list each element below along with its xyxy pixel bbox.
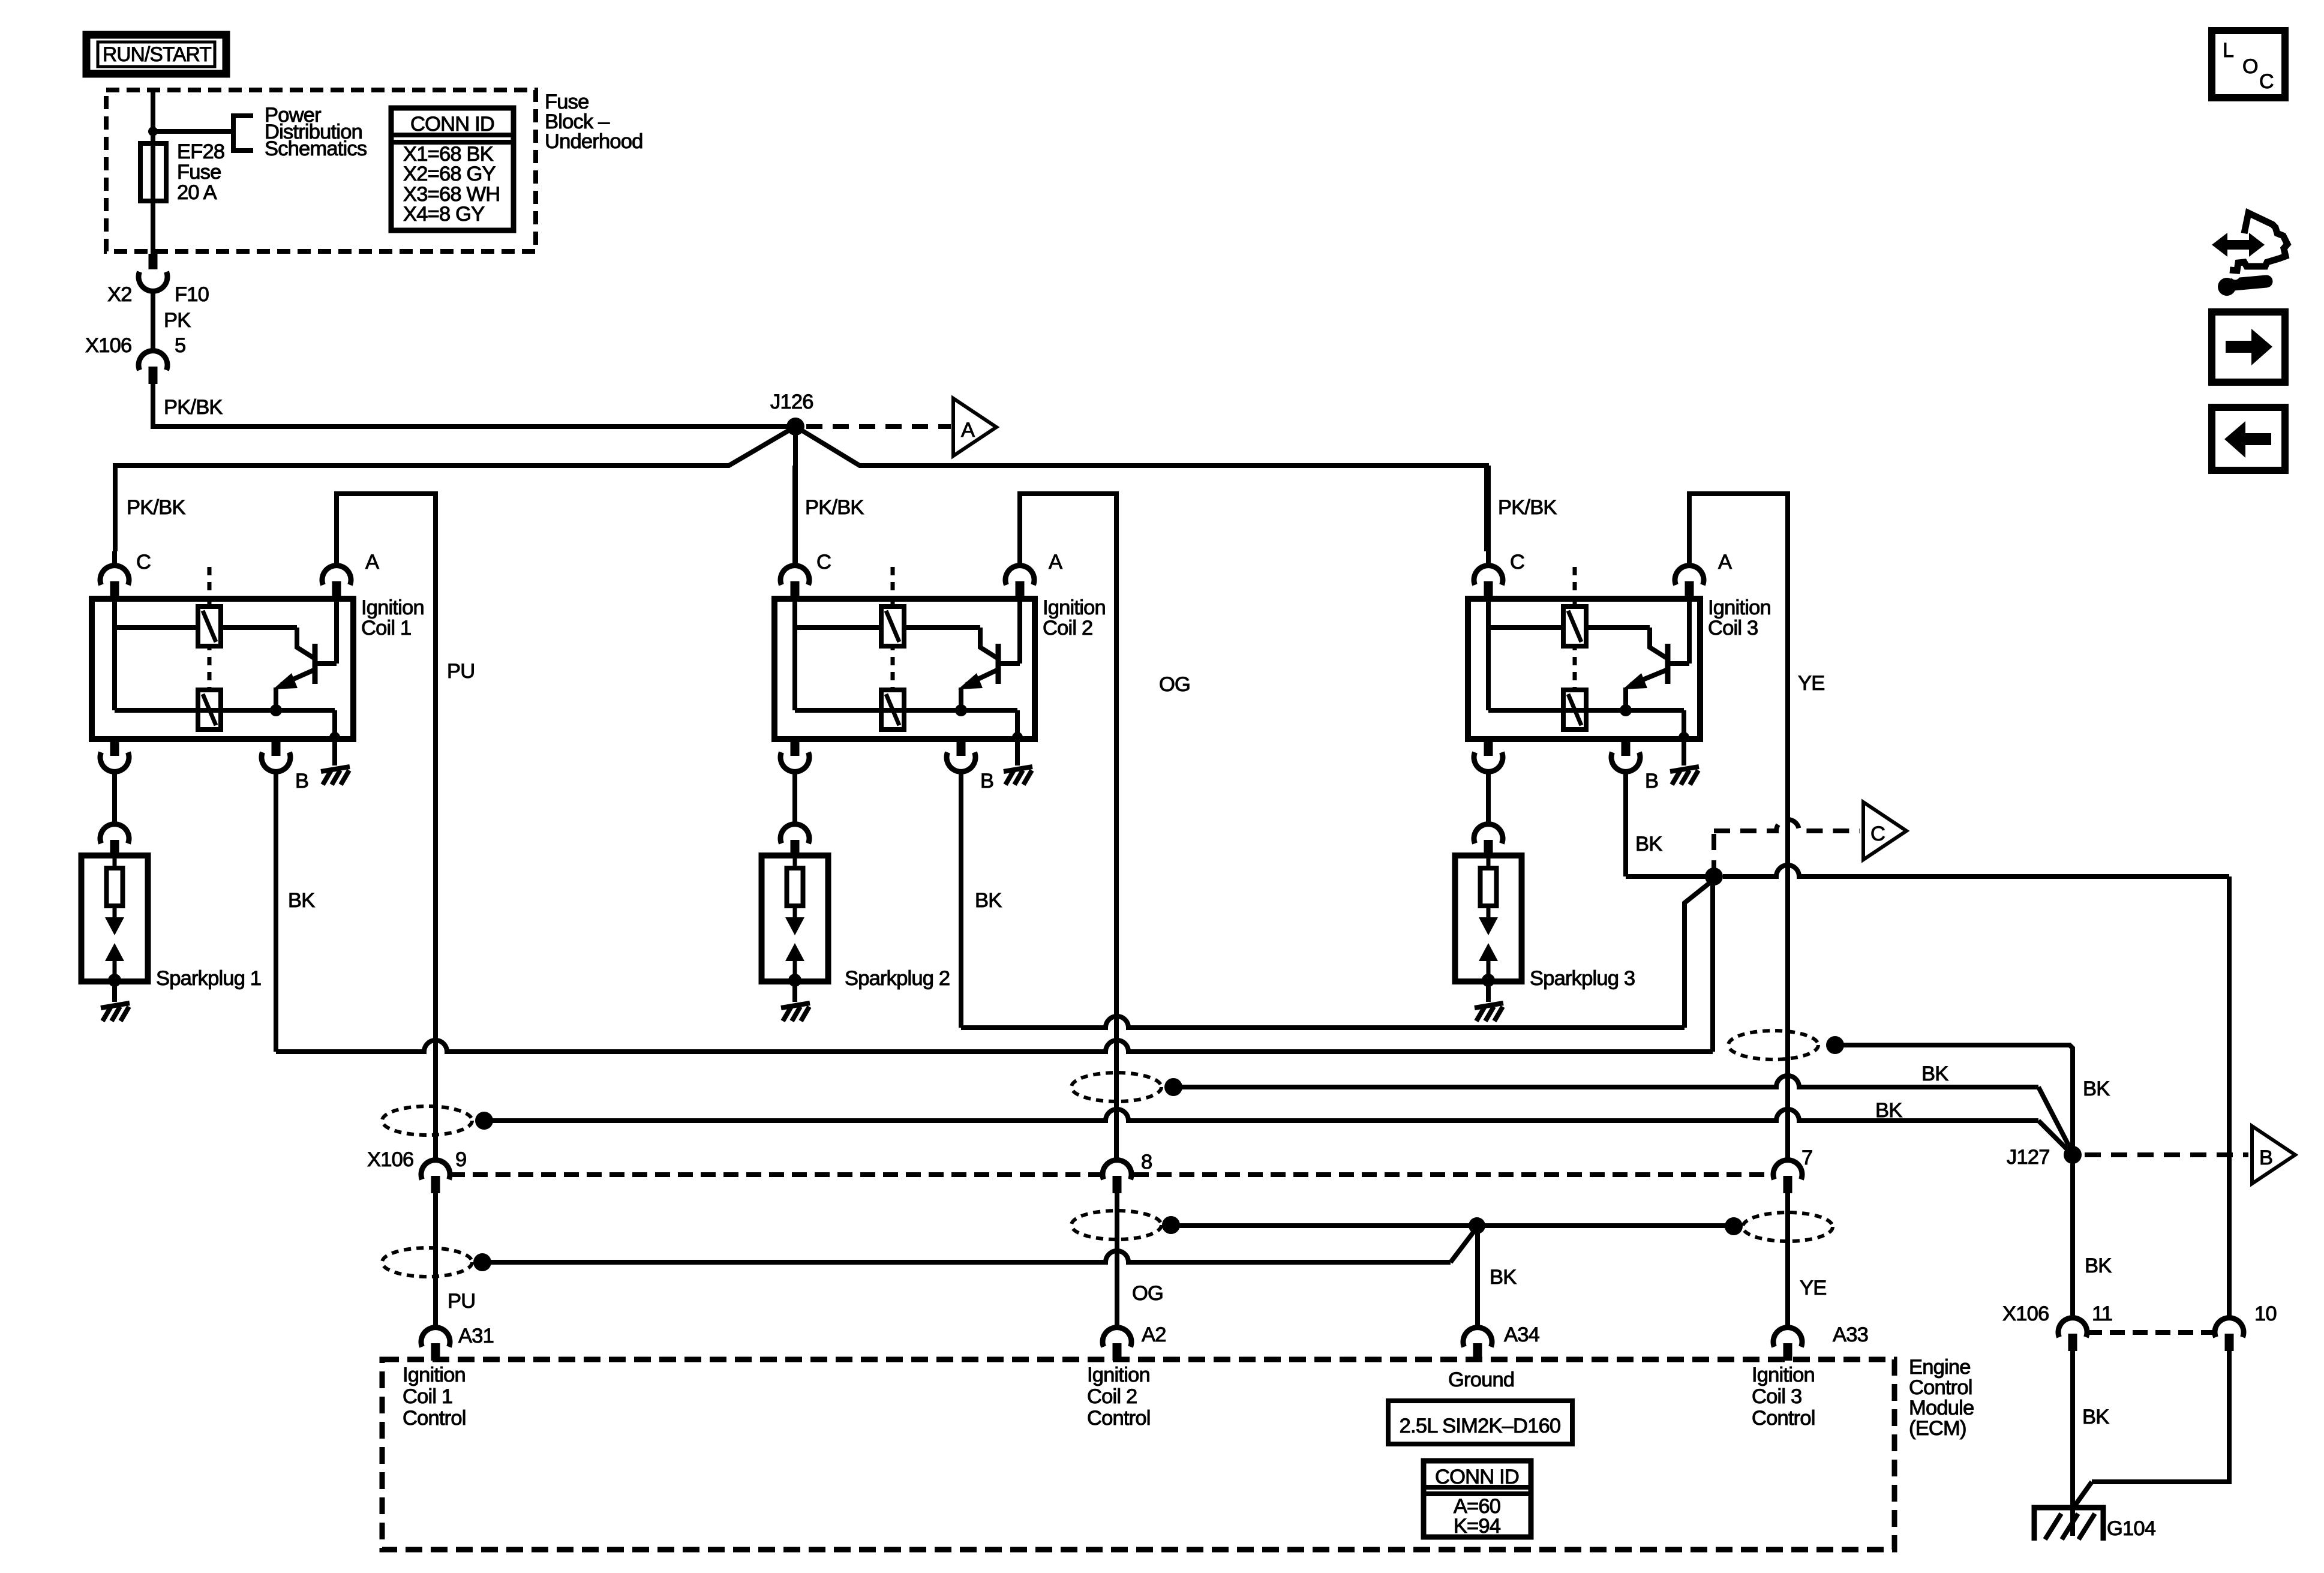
svg-text:PK/BK: PK/BK [1498,496,1557,519]
connector pin B of ignition coil 3 [1622,739,1631,756]
svg-text:Engine: Engine [1909,1356,1971,1379]
wire coil 2 secondary to sparkplug connector [792,772,797,824]
sparkplug 3 body [1455,855,1522,981]
wire BK ground bus to YE harness [1171,1223,1734,1228]
connector pin C of ignition coil 3 [1474,566,1503,585]
coil 2 secondary output connector [791,739,800,756]
dashed off-page link to arrow C [1712,834,1716,868]
svg-text:BK: BK [975,889,1002,912]
wire BK ground tap 4 to A34 branch [482,1251,1451,1262]
node BK ground tap 5 [1162,1216,1180,1234]
off-page arrow C [1863,802,1906,860]
node emitter junction coil 3 [1620,704,1632,716]
coil 1 secondary output connector [110,739,119,756]
svg-text:Control: Control [1752,1407,1815,1430]
wire J126 to left rail (coil 1 feed) [115,427,795,551]
sparkplug 3 gap electrodes [1487,906,1491,918]
svg-text:B: B [1645,770,1658,792]
svg-text:YE: YE [1800,1277,1826,1299]
svg-text:2.5L SIM2K–D160: 2.5L SIM2K–D160 [1400,1415,1561,1437]
connector ECM pin A34 [1463,1328,1492,1347]
svg-text:A: A [1049,551,1062,574]
coil 3 primary rail [1486,600,1491,710]
svg-text:Sparkplug 3: Sparkplug 3 [1530,967,1635,990]
harness marker around YE wire (upper) [1728,1031,1818,1059]
svg-text:Ignition: Ignition [403,1364,466,1386]
node BK drain tap 3 [1826,1036,1844,1054]
svg-text:A2: A2 [1142,1323,1166,1346]
svg-text:CONN ID: CONN ID [410,113,494,136]
svg-text:A34: A34 [1504,1323,1540,1346]
wire coil 3 secondary to sparkplug connector [1486,772,1491,824]
harness marker around OG wire (lower) [1071,1211,1161,1239]
wire branch to power distribution bracket [153,129,233,134]
connector X106 pin 11 [2058,1318,2087,1337]
coil 2 secondary winding [881,690,904,730]
svg-text:Underhood: Underhood [545,130,643,153]
connector ECM pin A33 [1773,1328,1802,1347]
node ground bus junction [1469,1217,1485,1234]
coil 1 secondary rail [115,708,335,713]
svg-text:B: B [295,770,308,792]
svg-text:Coil 1: Coil 1 [361,617,411,640]
coil 2 core (dashed) [891,567,895,690]
connector X106 pin 5 [139,351,167,370]
coil 3 secondary winding [1563,690,1586,730]
svg-text:Control: Control [1087,1407,1151,1430]
wire coil 3 pin C lead [1486,466,1491,566]
harness marker around YE wire (lower) [1743,1212,1833,1241]
svg-text:J126: J126 [770,391,813,413]
ignition coil 2 box [774,599,1035,739]
wire YE below X106 [1785,1193,1790,1328]
coil 3 primary winding [1563,607,1586,646]
svg-text:20 A: 20 A [177,181,217,204]
svg-text:C: C [1870,822,1885,845]
fuse EF28 20A [140,143,166,201]
wire from RUN/START into fuse block [151,90,155,254]
wire coil 1 pin A loop from ECM control [337,494,436,1160]
wire BK from coil 2 pin B [959,772,963,1028]
CONN ID table (fuse block) [391,108,514,230]
node emitter junction coil 2 [955,704,967,716]
svg-text:K=94: K=94 [1454,1515,1501,1538]
wire BK drain 1 to J127 [484,1109,2038,1121]
connector pin B of ignition coil 2 [957,739,966,756]
svg-text:(ECM): (ECM) [1909,1417,1966,1440]
connector X106 pin 9 [421,1160,450,1179]
svg-text:BK: BK [2082,1406,2109,1428]
svg-text:Ignition: Ignition [1752,1364,1815,1386]
sparkplug 2 boot connector [780,824,809,843]
svg-text:X4=8 GY: X4=8 GY [403,203,485,226]
transistor Q3 base lead [1650,628,1668,659]
ground (coil 1 case) [321,767,350,772]
svg-text:Sparkplug 2: Sparkplug 2 [845,967,950,990]
ground (sparkplug 3) [1475,1003,1503,1008]
svg-text:J127: J127 [2007,1146,2050,1169]
wire BK splice to X106 pin 10 [1723,865,2229,876]
connector X106 pin 8 [1103,1160,1131,1179]
svg-text:PK: PK [164,309,191,332]
transistor Q1 bar [313,644,318,684]
sparkplug 1 resistor [107,868,123,906]
svg-text:C: C [816,551,831,574]
svg-text:BK: BK [1490,1266,1517,1289]
svg-text:9: 9 [455,1148,466,1171]
power distribution bracket [233,116,253,151]
splice J126 [786,418,804,436]
sparkplug 2 gap electrodes [793,906,797,918]
svg-text:PK/BK: PK/BK [164,396,223,419]
svg-text:BK: BK [288,889,315,912]
harness marker around OG wire (upper) [1071,1073,1161,1101]
connector X106 dashed body line (pins 11-10) [2087,1330,2215,1335]
wire coil 3 pin A loop from ECM control [1689,494,1788,1160]
wire BK X106-11 to G104 [2070,1351,2075,1536]
svg-text:BK: BK [2085,1254,2112,1277]
coil 3 secondary output connector [1484,739,1493,756]
wire sparkplug 1 to ground [112,981,117,1002]
svg-text:Ignition: Ignition [1043,596,1106,619]
svg-text:C: C [2259,70,2274,93]
connector pin A of ignition coil 1 [322,566,351,585]
svg-text:Schematics: Schematics [265,137,367,160]
svg-text:X2=68 GY: X2=68 GY [403,163,496,185]
coil 1 secondary winding [198,690,221,730]
svg-text:EF28: EF28 [177,140,224,163]
off-page arrow B [2252,1126,2295,1184]
splice J127 [2064,1146,2082,1164]
wire BK from coil 1 pin B [274,772,278,1052]
ground (sparkplug 2) [781,1003,810,1008]
dashed off-page link to arrow A [806,424,951,429]
sparkplug 2 body [762,855,828,981]
wire OG below X106 [1115,1193,1119,1328]
coil 3 case ground lead [1682,710,1686,766]
node coil 1 ground at box edge [329,732,340,743]
transistor Q2 base lead [980,628,998,659]
svg-text:Control: Control [403,1407,466,1430]
node BK ground tap 6 [1725,1217,1743,1235]
svg-text:OG: OG [1132,1282,1163,1305]
svg-text:F10: F10 [175,283,209,306]
ignition coil 3 box [1468,599,1700,739]
wire PU below X106 [433,1193,438,1328]
transistor Q2 emitter with arrow [966,670,998,685]
svg-text:A33: A33 [1833,1323,1868,1346]
sparkplug 2 resistor [787,868,803,906]
transistor Q1 collector to pin A [315,661,337,666]
svg-text:A: A [961,419,975,442]
wire J126 down to coil 2 pin C [793,427,798,566]
svg-text:X106: X106 [367,1148,413,1171]
icon forward arrow box [2212,312,2285,382]
wire BK drain 3 to J127 [1835,1045,2073,1155]
svg-text:10: 10 [2254,1302,2277,1325]
svg-text:Ignition: Ignition [1087,1364,1150,1386]
svg-text:OG: OG [1159,673,1190,696]
harness marker around PU wire (upper) [382,1106,472,1135]
svg-text:C: C [136,551,151,574]
icon vehicle data with wrench [2212,233,2265,257]
svg-text:Coil 2: Coil 2 [1087,1385,1137,1408]
connector X106 pin 7 [1773,1160,1802,1179]
connector pin B of ignition coil 1 [272,739,281,756]
svg-text:A: A [365,551,379,574]
node junction above fuse EF28 [148,127,158,136]
dashed off-page link to arrow B [2085,1152,2248,1157]
node sparkplug 3 shell [1482,974,1495,987]
wire coil 2 pin A loop from ECM control [1020,494,1116,1160]
svg-text:Coil 1: Coil 1 [403,1385,452,1408]
svg-text:BK: BK [2083,1077,2110,1100]
transistor Q2 bar [996,644,1001,684]
node coil 3 ground at box edge [1679,732,1689,743]
svg-text:Coil 3: Coil 3 [1752,1385,1801,1408]
svg-text:PK/BK: PK/BK [805,496,864,519]
node BK ground tap 4 [473,1253,491,1271]
wire PK between X2 and X106 [151,291,155,351]
transistor Q2 collector to pin A [998,661,1020,666]
connector pin C of ignition coil 1 [100,566,129,585]
svg-text:Fuse: Fuse [177,161,221,184]
coil 1 primary rail [112,600,117,710]
svg-text:Control: Control [1909,1376,1972,1399]
wire sparkplug 3 to ground [1486,981,1491,1002]
wire PK/BK from X106-5 down to J126 rail [153,384,793,427]
svg-text:G104: G104 [2107,1517,2156,1540]
connector X106 pin 10 [2215,1318,2244,1337]
wire BK drain 2 to J127 [1173,1076,2038,1087]
node sparkplug 1 shell [108,974,121,987]
connector pin A of ignition coil 2 [1005,566,1034,585]
svg-text:CONN ID: CONN ID [1435,1466,1519,1488]
connector ECM pin A31 [421,1328,450,1347]
transistor Q1 emitter with arrow [281,670,315,685]
svg-text:BK: BK [1921,1062,1948,1085]
node BK drain tap 1 [475,1112,493,1130]
wire BK ground bus down to ECM pin A34 [1475,1226,1480,1328]
svg-text:Module: Module [1909,1397,1974,1419]
svg-text:Coil 2: Coil 2 [1043,617,1092,640]
wire J126 to right rail (coil 3 feed) [795,427,1487,551]
svg-text:Sparkplug 1: Sparkplug 1 [156,967,261,990]
svg-text:BK: BK [1635,833,1662,855]
connector ECM pin A2 [1103,1328,1131,1347]
coil 2 primary rail [792,600,797,710]
connector X2 pin F10 [149,254,158,269]
svg-text:B: B [2259,1146,2272,1169]
wire coil 2 pin C lead [792,466,797,566]
svg-text:RUN/START: RUN/START [103,43,212,66]
sparkplug 3 resistor [1481,868,1497,906]
svg-text:8: 8 [1141,1151,1152,1173]
svg-text:BK: BK [1875,1099,1902,1122]
coil 1 core (dashed) [208,567,212,690]
transistor Q3 collector to pin A [1668,661,1689,666]
CONN ID table (ECM) [1424,1461,1531,1537]
wire coil 1 pin C lead [112,551,117,566]
wire J127 down to X106 pin 11 [2070,1155,2075,1318]
wire BK from coil 3 pin B [1623,772,1628,876]
connector X106 dashed body line [450,1172,1100,1177]
coil 3 secondary rail [1488,708,1684,713]
svg-text:X106: X106 [85,334,131,357]
icon LOC box [2212,31,2285,98]
harness marker around PU wire (lower) [382,1248,472,1277]
connector pin A of ignition coil 3 [1675,566,1704,585]
svg-text:O: O [2242,55,2258,78]
node BK drain tap 2 [1164,1078,1182,1096]
svg-text:11: 11 [2092,1302,2112,1325]
fuse block dashed box [106,90,536,251]
svg-text:X106: X106 [2002,1302,2049,1325]
connector pin C of ignition coil 2 [780,566,809,585]
sparkplug 1 boot connector [100,824,129,843]
ground (coil 2 case) [1004,767,1032,772]
icon back arrow box [2212,407,2285,470]
svg-text:L: L [2223,39,2233,62]
transistor Q3 emitter with arrow [1631,670,1668,685]
ground (coil 3 case) [1670,767,1699,772]
svg-text:A: A [1718,551,1732,574]
svg-text:Coil 3: Coil 3 [1708,617,1758,640]
svg-text:5: 5 [175,334,185,357]
node sparkplug 2 shell [788,974,801,987]
svg-text:PK/BK: PK/BK [127,496,185,519]
svg-text:Ground: Ground [1448,1368,1514,1391]
svg-text:7: 7 [1801,1146,1812,1169]
svg-text:A31: A31 [458,1325,494,1347]
off-page arrow A [953,398,996,456]
wire BK X106-10 to G104 [2092,1351,2229,1482]
ground G104 [2034,1508,2103,1541]
svg-text:PU: PU [448,1290,475,1313]
svg-text:X2: X2 [107,283,132,306]
ECM variant label 2.5L SIM2K-D160 [1388,1401,1572,1444]
svg-text:C: C [1510,551,1524,574]
ground (sparkplug 1) [101,1003,130,1008]
sparkplug 1 gap electrodes [113,906,117,918]
engine control module dashed box [382,1359,1894,1550]
coil 1 primary winding [198,607,221,646]
transistor Q3 bar [1665,644,1671,684]
svg-text:Ignition: Ignition [361,596,424,619]
sparkplug 1 body [82,855,148,981]
svg-text:PU: PU [447,660,475,683]
svg-text:YE: YE [1798,672,1824,695]
coil 3 core (dashed) [1573,567,1577,690]
svg-text:Ignition: Ignition [1708,596,1771,619]
splice of coil ground wires [1705,867,1723,885]
coil 2 primary winding [881,607,904,646]
node emitter junction coil 1 [270,704,282,716]
node coil 2 ground at box edge [1012,732,1023,743]
switch position box RUN/START [86,35,226,74]
ignition coil 1 box [92,599,353,739]
svg-text:B: B [980,770,993,792]
wire sparkplug 2 to ground [792,981,797,1002]
coil 2 secondary rail [795,708,1017,713]
coil 1 case ground lead [332,710,337,766]
wire coil 1 secondary to sparkplug connector [112,772,117,824]
transistor Q1 base lead [297,628,315,659]
coil 2 case ground lead [1015,710,1020,766]
sparkplug 3 boot connector [1474,824,1503,843]
